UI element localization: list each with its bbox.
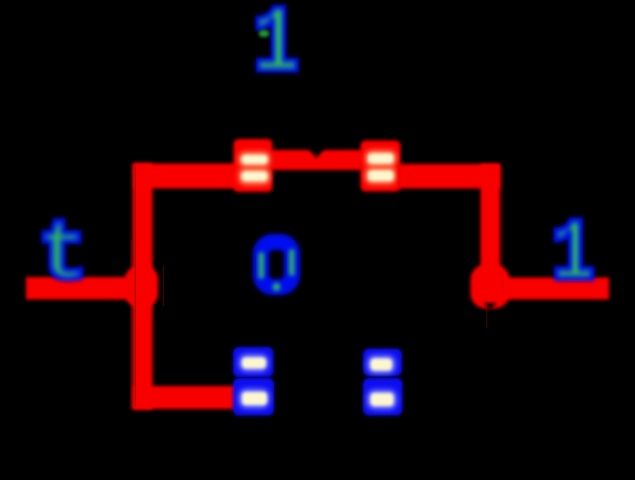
coil contact open upper pad (right) — [363, 349, 402, 377]
label value 1 (right output) — [551, 207, 595, 306]
artifact hairline dark below right junction — [486, 302, 487, 328]
coil contact open lower pad (left) — [233, 378, 274, 416]
artifact hairline dark inside left vertical wire — [135, 166, 136, 407]
notch in right junction — [484, 303, 498, 310]
junction right — [471, 265, 510, 309]
wire left input horizontal — [26, 277, 144, 300]
wire top-right horizontal — [398, 164, 500, 189]
artifact hairline red left of left vertical wire — [131, 240, 132, 410]
contact K1 (closed, energized) — [234, 139, 273, 192]
contact K2 (closed, energized) — [361, 141, 401, 192]
label value t (left input) — [37, 207, 88, 304]
label value 0 (center) — [259, 242, 295, 291]
wire bottom horizontal — [133, 386, 236, 409]
wire top-left horizontal — [134, 164, 240, 189]
wire middle horizontal — [270, 150, 363, 170]
wire left vertical — [133, 164, 153, 410]
svg-text:1: 1 — [252, 0, 300, 99]
coil contact open lower pad (right) — [363, 378, 403, 416]
svg-text:t: t — [37, 207, 88, 304]
artifact green blip on top 1 — [259, 30, 269, 37]
notch in middle wire — [307, 147, 326, 158]
junction left — [125, 266, 158, 307]
label value 1 (top) — [252, 0, 300, 99]
artifact hairline red right of right vertical wire — [502, 168, 503, 303]
wire right output horizontal — [490, 278, 609, 300]
coil contact open upper pad (left) — [233, 347, 274, 377]
svg-text:1: 1 — [551, 207, 595, 306]
wire right vertical — [481, 164, 501, 286]
artifact hairline red right of left junction — [163, 266, 164, 306]
